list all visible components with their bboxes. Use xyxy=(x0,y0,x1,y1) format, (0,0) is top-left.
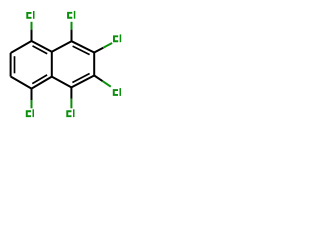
wire bond C1-Cl green half xyxy=(70,99,72,109)
wire bond C6=C7 outer xyxy=(10,53,12,77)
wire bond C1=C2 inner xyxy=(72,74,89,83)
wire bond C8=C8a inner xyxy=(32,75,47,84)
wire bond C5-Cl green half xyxy=(31,22,33,30)
wire bond C5-C6 xyxy=(11,41,32,53)
wire bond C4=C3 main xyxy=(72,41,95,52)
wire bond C5-Cl black half xyxy=(31,30,33,41)
wire bond C7-C8 xyxy=(11,77,32,89)
wire bond C1-Cl black half xyxy=(70,87,72,98)
wire bond C8a-C1 xyxy=(52,77,72,88)
wire bond C4-Cl black half xyxy=(71,30,73,42)
node Cl label pos1 bottom-center xyxy=(66,110,71,117)
wire bond C6=C7 inner xyxy=(14,56,16,73)
wire bond C3-C2 xyxy=(93,53,95,76)
node Cl label pos8 bottom-left xyxy=(26,110,31,117)
node Cl label pos4 top-center xyxy=(67,12,72,19)
wire bond C8-Cl green half xyxy=(31,100,33,108)
node Cl label pos5 top-left xyxy=(26,12,31,19)
wire bond C4a-C4 xyxy=(52,41,72,52)
wire bond C3-Cl black half xyxy=(94,48,103,53)
wire bond C1=C2 main xyxy=(71,76,94,88)
wire bond C8-Cl black half xyxy=(31,89,33,100)
node Cl label pos3 right-top xyxy=(113,35,118,42)
wire bond C4=C3 inner xyxy=(73,46,90,55)
wire bond C3-Cl green half xyxy=(103,43,112,48)
wire bond C8=C8a main xyxy=(32,77,52,89)
node Cl label pos2 right-bottom xyxy=(113,89,118,96)
wire bond C2-Cl green half xyxy=(103,81,111,87)
wire bond C5=C4a inner xyxy=(33,46,48,54)
wire bond C4-Cl green half xyxy=(71,22,73,30)
wire bond C4a-C8a central xyxy=(51,52,53,77)
wire bond C2-Cl black half xyxy=(94,76,102,82)
wire bond C5=C4a main xyxy=(32,41,52,52)
